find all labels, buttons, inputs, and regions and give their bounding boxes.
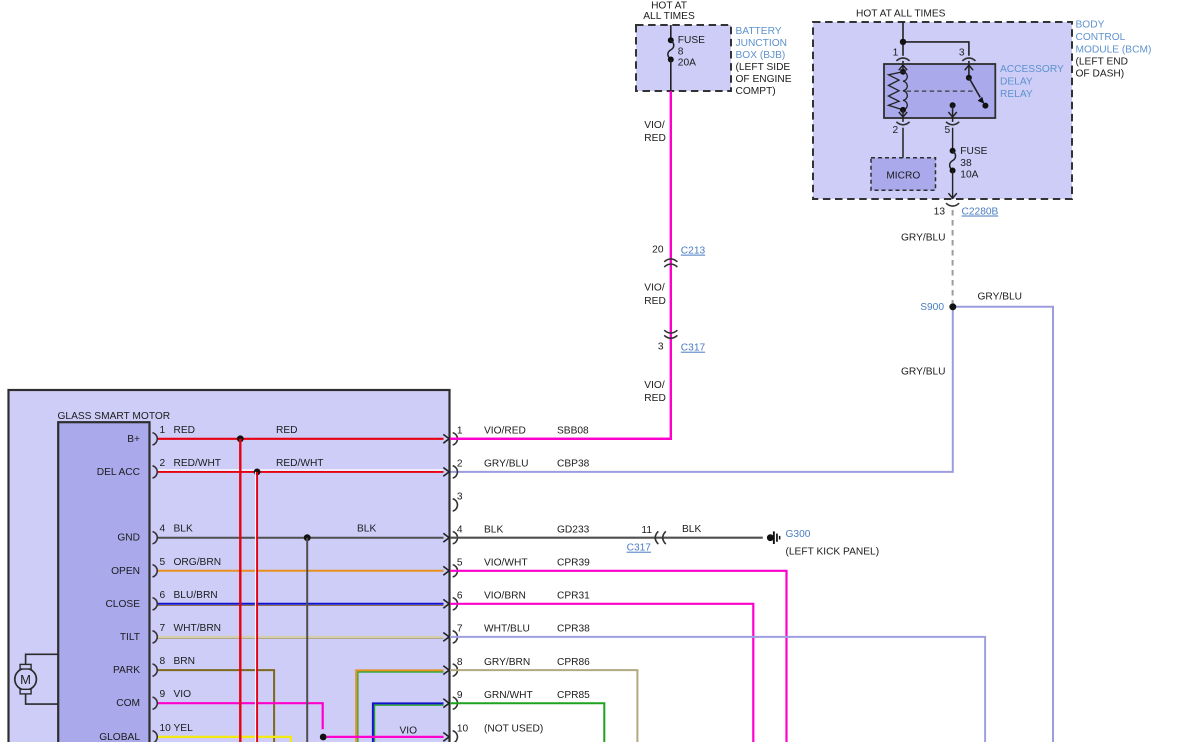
motor pin label CLOSE	[105, 599, 140, 610]
svg-text:SBB08: SBB08	[557, 426, 589, 437]
svg-text:OF ENGINE: OF ENGINE	[736, 74, 792, 85]
svg-text:VIO/: VIO/	[644, 380, 665, 391]
svg-text:10: 10	[457, 724, 469, 735]
label VIO at pin10	[400, 725, 418, 736]
svg-text:3: 3	[457, 492, 463, 503]
svg-text:RELAY: RELAY	[1000, 89, 1033, 100]
wire BLU/BRN pin6 left	[157, 604, 444, 606]
svg-text:ALL TIMES: ALL TIMES	[643, 11, 695, 22]
svg-text:YEL: YEL	[174, 723, 194, 734]
svg-text:5: 5	[160, 557, 166, 568]
micro box	[871, 158, 936, 191]
arrow into connector row 5	[443, 566, 449, 575]
arrow into connector row 9	[443, 699, 449, 708]
motor connector pin 2 (RED/WHT)	[153, 458, 222, 478]
svg-text:RED/WHT: RED/WHT	[276, 458, 324, 469]
svg-text:BATTERY: BATTERY	[736, 26, 782, 37]
svg-text:RED: RED	[644, 296, 666, 307]
svg-text:TILT: TILT	[120, 632, 140, 643]
svg-text:HOT AT ALL TIMES: HOT AT ALL TIMES	[856, 8, 946, 19]
svg-text:JUNCTION: JUNCTION	[736, 38, 788, 49]
motor connector pin 4 (BLK)	[153, 524, 193, 544]
inline connector C317 pin 11 on BLK wire	[627, 525, 666, 554]
wire ORG/GRN pair up into pin8	[356, 670, 443, 743]
connector C213 pin 20	[652, 245, 705, 267]
svg-text:(LEFT KICK PANEL): (LEFT KICK PANEL)	[786, 547, 880, 558]
glass smart motor inner box	[58, 422, 149, 747]
wire BRN pin8 left, turns down	[157, 670, 274, 743]
svg-text:OPEN: OPEN	[111, 566, 140, 577]
svg-text:ORG/BRN: ORG/BRN	[174, 557, 222, 568]
wire GRY/BLU from S900 right and down	[953, 307, 1053, 743]
glass smart motor outer box	[9, 390, 450, 747]
relay pin 2 connector	[893, 118, 910, 136]
wire WHT/BLU pin7 right	[450, 637, 985, 743]
wire GRY/BLU dashed from C2280B to splice S900	[952, 210, 954, 303]
right connector pin 4	[453, 524, 590, 544]
svg-text:GLASS SMART MOTOR: GLASS SMART MOTOR	[58, 411, 171, 422]
label VIO/RED upper	[644, 120, 666, 144]
label BLK mid	[357, 524, 376, 535]
svg-text:MICRO: MICRO	[886, 170, 920, 181]
svg-text:GLOBAL: GLOBAL	[99, 732, 140, 742]
junction dot RED/WHT	[254, 469, 261, 476]
motor pin label B+	[127, 434, 140, 445]
wire VIO/BRN pin6 right	[450, 604, 753, 743]
label GRY/BLU right	[978, 292, 1023, 303]
wire RED/WHT pin2 left	[157, 470, 444, 472]
arrow into connector row 2	[443, 468, 449, 477]
svg-text:BLU/BRN: BLU/BRN	[174, 590, 218, 601]
BJB name text	[736, 26, 792, 97]
svg-text:GRY/BLU: GRY/BLU	[978, 292, 1023, 303]
motor connector pin 8 (BRN)	[153, 656, 196, 676]
wire GRN/WHT pin9 right	[450, 703, 604, 743]
svg-text:VIO: VIO	[400, 725, 418, 736]
svg-text:2: 2	[457, 459, 463, 470]
svg-text:9: 9	[160, 689, 166, 700]
svg-text:VIO/: VIO/	[644, 283, 665, 294]
svg-text:GRY/BLU: GRY/BLU	[484, 459, 529, 470]
svg-text:2: 2	[893, 125, 899, 136]
motor connector pin 9 (VIO)	[153, 689, 192, 709]
svg-text:COM: COM	[116, 698, 140, 709]
wire VIO/RED pin1 right	[450, 438, 670, 440]
svg-text:8: 8	[457, 657, 463, 668]
splice dot VIO	[320, 734, 327, 741]
wire WHT/BRN pin7 left	[157, 637, 444, 639]
svg-text:GD233: GD233	[557, 525, 590, 536]
relay pin 3	[959, 47, 976, 64]
svg-text:B+: B+	[127, 434, 140, 445]
right connector pin 1	[453, 426, 589, 446]
svg-text:BODY: BODY	[1076, 20, 1105, 31]
relay actuator dashed link	[907, 90, 975, 92]
svg-text:6: 6	[457, 591, 463, 602]
svg-text:BLK: BLK	[682, 524, 701, 535]
relay pin 5 stub	[948, 102, 956, 118]
svg-text:RED: RED	[644, 393, 666, 404]
svg-text:38: 38	[960, 158, 972, 169]
connector C317 pin 3	[658, 330, 706, 354]
svg-text:8: 8	[678, 46, 684, 57]
svg-text:4: 4	[457, 524, 463, 535]
svg-text:RED/WHT: RED/WHT	[174, 458, 222, 469]
svg-text:GRN/WHT: GRN/WHT	[484, 690, 533, 701]
svg-text:COMPT): COMPT)	[736, 86, 776, 97]
svg-text:FUSE: FUSE	[960, 146, 987, 157]
label RED mid	[276, 425, 298, 436]
svg-text:C317: C317	[627, 543, 652, 554]
svg-text:8: 8	[160, 656, 166, 667]
glass smart motor label	[58, 411, 171, 422]
motor pin label DEL ACC	[97, 467, 140, 478]
svg-text:2: 2	[160, 458, 166, 469]
arrow into connector row 6	[443, 599, 449, 608]
relay coil	[889, 64, 908, 118]
label GRY/BLU upper	[901, 233, 946, 244]
svg-text:CPR39: CPR39	[557, 558, 590, 569]
junction dot BLK	[304, 534, 311, 541]
wire ORG/BRN pin5 left	[157, 570, 444, 572]
svg-text:C213: C213	[681, 246, 706, 257]
svg-text:GRY/BRN: GRY/BRN	[484, 657, 530, 668]
svg-text:RED: RED	[174, 425, 196, 436]
svg-text:BLK: BLK	[357, 524, 376, 535]
svg-text:CLOSE: CLOSE	[105, 599, 140, 610]
svg-text:GND: GND	[117, 533, 140, 544]
motor pin label COM	[116, 698, 140, 709]
body control module BCM	[813, 22, 1072, 199]
label BLK right of C317	[682, 524, 701, 535]
relay pin 1	[893, 47, 910, 64]
svg-text:7: 7	[160, 623, 166, 634]
splice S900	[920, 302, 956, 313]
junction dot RED	[237, 435, 244, 442]
right connector pin 6	[453, 591, 590, 611]
label HOT AT ALL TIMES (BJB)	[643, 1, 695, 23]
arrow into connector row 10	[443, 733, 449, 742]
svg-text:CONTROL: CONTROL	[1076, 32, 1126, 43]
wire RED pin1 left	[157, 438, 444, 440]
fuse F38 10A	[948, 128, 987, 199]
svg-text:1: 1	[160, 425, 166, 436]
svg-text:4: 4	[160, 524, 166, 535]
svg-text:9: 9	[457, 690, 463, 701]
svg-text:10: 10	[160, 723, 172, 734]
svg-text:1: 1	[893, 47, 899, 58]
svg-text:VIO/RED: VIO/RED	[484, 426, 526, 437]
svg-text:3: 3	[658, 342, 664, 353]
label VIO/RED between C213 and C317	[644, 283, 666, 307]
svg-text:7: 7	[457, 624, 463, 635]
motor connector pin 10 (YEL)	[153, 723, 194, 743]
right connector pin 3	[453, 492, 463, 512]
wire GRY/BLU from S900 down to motor pin 2	[450, 307, 953, 472]
svg-text:VIO/WHT: VIO/WHT	[484, 558, 528, 569]
wire BLK vertical drop	[306, 538, 308, 743]
svg-text:BLK: BLK	[174, 524, 193, 535]
svg-text:CPR86: CPR86	[557, 657, 590, 668]
svg-text:G300: G300	[786, 529, 811, 540]
motor pin label GND	[117, 533, 140, 544]
right connector pin 10	[453, 724, 544, 744]
wire VIO pin9 left, turns down	[157, 703, 323, 729]
svg-text:CPR31: CPR31	[557, 591, 590, 602]
label GRY/BLU lower	[901, 366, 946, 377]
arrow into connector row 7	[443, 633, 449, 642]
svg-text:(LEFT SIDE: (LEFT SIDE	[736, 62, 791, 73]
right connector pin 9	[453, 690, 590, 710]
wire pin2 to micro	[902, 128, 904, 158]
right connector pin 7	[453, 624, 590, 644]
svg-text:ACCESSORY: ACCESSORY	[1000, 64, 1064, 75]
svg-text:6: 6	[160, 590, 166, 601]
arrow into connector row 4	[443, 533, 449, 542]
svg-text:10A: 10A	[960, 169, 978, 180]
svg-text:13: 13	[934, 207, 946, 218]
wire VIO into pin10	[327, 736, 444, 738]
micro text	[886, 170, 920, 181]
connector C2280B pin 13	[934, 203, 999, 217]
svg-text:DEL ACC: DEL ACC	[97, 467, 140, 478]
svg-text:FUSE: FUSE	[678, 35, 705, 46]
svg-text:MODULE (BCM): MODULE (BCM)	[1076, 44, 1152, 55]
wire VIO/WHT pin5 right	[450, 571, 787, 743]
svg-text:VIO: VIO	[174, 689, 192, 700]
svg-text:11: 11	[641, 525, 652, 536]
right connector pin 8	[453, 657, 590, 677]
wire VIO/RED vertical from fuse to glass smart motor pin 1	[450, 91, 671, 439]
motor connector pin 1 (RED)	[153, 425, 196, 445]
svg-text:HOT AT: HOT AT	[651, 1, 687, 12]
wire RED/WHT vertical drop	[255, 472, 257, 743]
svg-text:WHT/BLU: WHT/BLU	[484, 624, 530, 635]
wire BLK pin4 left	[157, 537, 444, 539]
BCM feed wire and node	[900, 22, 969, 56]
motor connector pin 5 (ORG/BRN)	[153, 557, 222, 577]
svg-text:PARK: PARK	[113, 665, 140, 676]
svg-text:VIO/: VIO/	[644, 120, 665, 131]
motor pin label TILT	[120, 632, 140, 643]
svg-text:5: 5	[945, 125, 951, 136]
svg-text:20A: 20A	[678, 57, 696, 68]
svg-text:C317: C317	[681, 343, 706, 354]
ground G300	[767, 529, 879, 557]
motor pin label GLOBAL	[99, 732, 140, 743]
svg-text:C2280B: C2280B	[962, 207, 999, 218]
svg-text:1: 1	[457, 426, 463, 437]
svg-text:WHT/BRN: WHT/BRN	[174, 623, 222, 634]
svg-text:GRY/BLU: GRY/BLU	[901, 366, 946, 377]
svg-text:RED: RED	[276, 425, 298, 436]
svg-text:GRY/BLU: GRY/BLU	[901, 233, 946, 244]
motor pin label OPEN	[111, 566, 140, 577]
right connector pin 2	[453, 459, 590, 479]
wire YEL pin10 left, turns down	[157, 737, 291, 743]
wire GRY/BLU pin2 right handled above ; wire BLK pin4 to ground	[450, 537, 763, 539]
motor connector pin 7 (WHT/BRN)	[153, 623, 222, 643]
wire BLU/GRN pair up into pin9	[373, 703, 444, 743]
motor M symbol	[15, 654, 58, 704]
wire GRY/BRN pin8 right	[450, 670, 637, 743]
svg-text:20: 20	[652, 245, 664, 256]
fuse F8 20A	[668, 25, 705, 91]
svg-text:BLK: BLK	[484, 525, 503, 536]
svg-text:(NOT USED): (NOT USED)	[484, 724, 543, 735]
battery junction box BJB	[636, 25, 731, 91]
relay switch contact	[965, 64, 989, 109]
motor pin label PARK	[113, 665, 140, 676]
arrow into connector row 1	[443, 434, 449, 443]
BCM name text	[1076, 20, 1152, 80]
svg-text:CPR38: CPR38	[557, 624, 590, 635]
arrow into connector row 8	[443, 666, 449, 675]
svg-text:3: 3	[959, 47, 965, 58]
relay pin 5 connector	[945, 118, 960, 136]
svg-text:CPR85: CPR85	[557, 690, 590, 701]
svg-text:VIO/BRN: VIO/BRN	[484, 591, 526, 602]
svg-text:5: 5	[457, 558, 463, 569]
relay name text	[1000, 64, 1064, 100]
right connector pin 5	[453, 558, 590, 578]
accessory delay relay box	[884, 64, 995, 118]
svg-text:S900: S900	[920, 302, 944, 313]
svg-text:(LEFT END: (LEFT END	[1076, 56, 1128, 67]
label HOT AT ALL TIMES (BCM)	[856, 8, 946, 19]
label RED/WHT mid	[276, 458, 324, 469]
svg-text:DELAY: DELAY	[1000, 77, 1033, 88]
svg-text:BRN: BRN	[174, 656, 196, 667]
svg-text:OF DASH): OF DASH)	[1076, 68, 1125, 79]
svg-text:M: M	[20, 672, 31, 687]
svg-text:RED: RED	[644, 133, 666, 144]
wire RED vertical drop	[239, 439, 241, 743]
svg-text:BOX (BJB): BOX (BJB)	[736, 50, 786, 61]
svg-text:CBP38: CBP38	[557, 459, 590, 470]
motor connector pin 6 (BLU/BRN)	[153, 590, 218, 610]
label VIO/RED mid	[644, 380, 666, 404]
